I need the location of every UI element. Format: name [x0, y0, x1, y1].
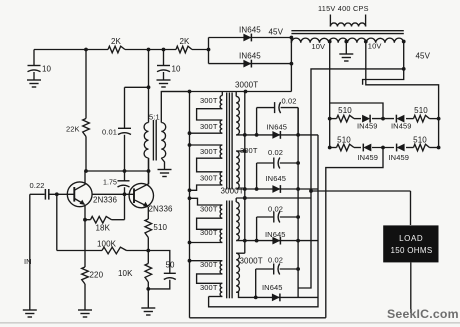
svg-text:0.22: 0.22: [30, 181, 45, 190]
wire V245 drop: [243, 92, 247, 254]
diode D9 1N645: [265, 230, 286, 245]
diode D3 1N459: [357, 115, 378, 131]
svg-text:115V 400 CPS: 115V 400 CPS: [318, 4, 369, 13]
wire S4 top hook: [236, 252, 245, 254]
svg-text:2N336: 2N336: [149, 205, 174, 214]
svg-text:18K: 18K: [96, 224, 111, 233]
wire diode row2: [236, 187, 318, 191]
diode D2 1N645 row: [209, 52, 292, 68]
resistor R12 510: [413, 135, 429, 151]
resistor R11 510: [337, 135, 355, 151]
wire base to 100K drop: [55, 192, 59, 250]
capacitor C8 0.02: [257, 148, 300, 189]
svg-text:300T: 300T: [200, 173, 218, 182]
svg-text:IN645: IN645: [265, 230, 286, 239]
wire bottom rail outer: [190, 317, 326, 319]
transistor Q1 emitter with arrow: [75, 199, 85, 205]
load resistor box: [383, 225, 438, 262]
bridge row1 dots: [328, 117, 441, 121]
svg-text:IN459: IN459: [358, 153, 379, 162]
wire W1 top tick: [221, 92, 223, 96]
scan artifact line: [0, 322, 460, 324]
bridge row2 dots: [328, 146, 441, 150]
primary winding W8 300T: [200, 283, 222, 296]
capacitor C6 50: [148, 251, 176, 289]
svg-text:IN459: IN459: [389, 153, 410, 162]
resistor R10 510: [414, 106, 430, 122]
svg-text:220: 220: [90, 271, 104, 280]
wire jumper W3-W4: [197, 158, 223, 172]
svg-text:0.02: 0.02: [268, 204, 283, 213]
wire top rail: [34, 49, 209, 51]
svg-text:IN645: IN645: [267, 123, 288, 132]
watermark: [387, 307, 459, 321]
svg-text:45V: 45V: [416, 52, 431, 61]
svg-text:3000T: 3000T: [240, 257, 263, 266]
svg-text:SeekIC.com: SeekIC.com: [387, 307, 459, 321]
svg-text:LOAD: LOAD: [399, 234, 423, 243]
wire Q2 base rail: [92, 192, 134, 196]
ground input: [23, 310, 37, 317]
svg-text:45V: 45V: [269, 28, 284, 37]
label Q1 2N336: [93, 196, 118, 205]
core upper block: [227, 93, 232, 190]
svg-text:300T: 300T: [200, 283, 218, 292]
wire right section bus V298: [297, 108, 299, 298]
resistor R3 22K: [66, 50, 89, 172]
primary winding W6 300T: [200, 228, 222, 243]
svg-text:IN645: IN645: [266, 174, 287, 183]
wire T1 primary bottom to Q2 collector: [148, 158, 150, 184]
label 115V 400 CPS: [318, 4, 369, 13]
svg-text:3000T: 3000T: [221, 187, 244, 196]
bridge row1 wire: [330, 118, 439, 120]
wire 10K to ground: [147, 289, 149, 308]
svg-text:IN645: IN645: [239, 52, 261, 61]
svg-text:10V: 10V: [368, 42, 382, 51]
svg-text:10: 10: [172, 65, 182, 74]
svg-text:10: 10: [42, 65, 52, 74]
wire W5 top to bus: [188, 196, 223, 205]
svg-text:510: 510: [338, 106, 352, 115]
label 10V right: [368, 42, 382, 51]
svg-text:22K: 22K: [66, 125, 80, 134]
svg-text:300T: 300T: [200, 122, 218, 131]
label 45V right: [416, 52, 431, 61]
diode D10 1N645: [262, 283, 283, 301]
diode D8 1N645: [266, 174, 287, 193]
transistor Q2 emitter with arrow: [134, 200, 148, 207]
secondary S1 3000T winding: [235, 81, 258, 135]
wire 10V left to bridge left: [329, 42, 331, 148]
label LOAD: [399, 234, 423, 243]
svg-text:10V: 10V: [312, 42, 326, 51]
wire input IN vertical: [24, 194, 32, 309]
core lower block: [227, 201, 232, 299]
wire 45V right end down: [402, 42, 406, 71]
wire 45V left node down: [290, 36, 294, 92]
ground below C1: [27, 80, 41, 87]
capacitor C2 10uF: [157, 50, 181, 80]
transformer T1 primary winding: [144, 123, 148, 159]
ground T2 center tap: [339, 54, 353, 61]
svg-text:50: 50: [166, 261, 176, 270]
svg-text:2K: 2K: [180, 37, 191, 46]
label 150 OHMS: [391, 246, 433, 255]
wire S3 top hook: [235, 198, 237, 202]
wire W3 top to bus: [188, 143, 223, 147]
bridge row2 wire: [330, 147, 439, 149]
svg-text:510: 510: [337, 135, 351, 144]
svg-text:2K: 2K: [111, 37, 122, 46]
svg-text:510: 510: [414, 106, 428, 115]
transistor Q2 collector: [134, 158, 148, 191]
wire load rail: [309, 189, 410, 225]
svg-text:510: 510: [153, 223, 167, 232]
ground T1 secondary: [158, 170, 172, 177]
svg-text:10K: 10K: [118, 269, 133, 278]
diode D1 1N645 row: [209, 26, 292, 42]
svg-text:IN459: IN459: [391, 122, 412, 131]
wire jumper W7-W8: [197, 274, 223, 283]
wire bridge mid drop: [326, 148, 383, 318]
svg-text:0.01: 0.01: [102, 128, 117, 137]
capacitor C4 1.75: [103, 180, 130, 220]
capacitor C9 0.02: [257, 204, 300, 240]
T2 secondary tap dots: [328, 40, 406, 44]
transformer T1 core: [153, 120, 156, 161]
transistor Q2 base bar: [133, 188, 135, 203]
wire bridge upper stub: [330, 103, 383, 119]
svg-text:3000T: 3000T: [235, 81, 258, 90]
transformer T2 core: [291, 31, 403, 34]
capacitor C5 0.22 input: [30, 181, 75, 200]
resistor R9 510: [337, 106, 355, 122]
transistor Q1 base bar: [73, 187, 75, 202]
svg-text:0.02: 0.02: [268, 148, 283, 157]
transformer T1 secondary winding: [161, 123, 165, 159]
diode D5 1N459: [358, 144, 379, 162]
wire load bottom lead: [410, 262, 412, 313]
wire gate rail: [236, 196, 311, 200]
wire S1 top hook: [235, 92, 237, 97]
primary winding W5 300T: [200, 204, 222, 218]
wire W2 bottom to bus: [188, 131, 223, 135]
diode D4 1N459: [391, 115, 412, 131]
T2 center tap ground wire: [345, 42, 347, 54]
capacitor C10 0.02: [256, 256, 300, 298]
diode D6 1N459: [389, 144, 410, 162]
svg-text:300T: 300T: [200, 96, 218, 105]
secondary S3 3000T winding: [221, 187, 244, 241]
svg-text:150 OHMS: 150 OHMS: [391, 246, 433, 255]
wire jumper W5-W6: [197, 218, 223, 229]
wire W7 top to bus: [188, 259, 223, 263]
wire T1 secondary top to bus: [161, 92, 189, 123]
svg-text:300T: 300T: [200, 147, 218, 156]
wire Q1 emitter down: [83, 205, 87, 267]
svg-text:IN645: IN645: [262, 283, 283, 292]
resistor R2 2K: [176, 37, 192, 53]
ground below C2: [157, 80, 171, 87]
wire diode row1: [236, 133, 318, 137]
label 10V left: [312, 42, 326, 51]
svg-text:IN: IN: [24, 257, 32, 266]
wire bus left vertical: [189, 92, 191, 318]
svg-text:2N336: 2N336: [93, 196, 118, 205]
transistor Q1 2N336 circle: [67, 182, 92, 207]
wire W4 bottom to bus: [188, 185, 223, 192]
svg-text:0.02: 0.02: [282, 97, 297, 106]
wire 10V right to bridge right: [366, 42, 439, 148]
ground below R5: [78, 310, 92, 317]
wire top rail y91.5: [161, 90, 291, 94]
resistor R5 220: [82, 267, 104, 310]
ground below 10K: [141, 308, 155, 315]
label 45V left: [269, 28, 284, 37]
capacitor C1 10uF: [28, 50, 52, 80]
transformer T1 5:1 label: [149, 113, 160, 122]
wire right return bus V318: [209, 135, 318, 307]
wire 45V lower jog: [363, 69, 404, 85]
wire node to T1 primary: [148, 50, 150, 123]
primary winding W2 300T: [200, 120, 222, 133]
transformer T2 primary: [330, 15, 365, 27]
wire T1 secondary bottom: [161, 158, 164, 169]
label Q2 2N336: [149, 205, 174, 214]
primary winding W3 300T: [200, 145, 222, 158]
capacitor C3 0.01: [102, 128, 131, 181]
wire left leg of diode loop: [208, 38, 210, 64]
transistor Q2 2N336 circle: [129, 183, 153, 207]
primary winding W4 300T: [200, 172, 222, 185]
secondary S4 3000T winding: [236, 253, 262, 292]
wire diode row4: [236, 292, 318, 299]
wire diode row3: [236, 239, 318, 243]
svg-text:100K: 100K: [97, 240, 117, 249]
capacitor C7 0.02: [257, 97, 299, 135]
resistor R4 18K: [85, 216, 125, 232]
wire W6 bottom to bus: [188, 241, 223, 245]
diode D7 1N645: [267, 123, 288, 139]
primary winding W1 300T: [200, 96, 222, 109]
node A junction dots on top rail: [84, 48, 210, 52]
wire S2 top hook: [236, 150, 245, 152]
svg-text:IN645: IN645: [239, 26, 261, 35]
primary winding W7 300T: [200, 260, 222, 274]
transformer T2 secondary: [291, 38, 403, 43]
svg-text:1.75: 1.75: [103, 180, 117, 187]
resistor R7 100K: [57, 240, 150, 254]
resistor R6 510: [145, 207, 167, 251]
svg-text:510: 510: [413, 135, 427, 144]
svg-text:0.02: 0.02: [268, 256, 283, 265]
svg-text:IN459: IN459: [357, 122, 378, 131]
wire collector rail y171: [84, 169, 150, 173]
secondary S2 300T winding: [236, 146, 258, 189]
wire jumper W1-W2: [197, 109, 223, 120]
wire W8 bottom lead: [209, 296, 223, 298]
wire 45V to mid bus: [298, 69, 404, 288]
svg-text:5:1: 5:1: [149, 113, 160, 122]
resistor R8 10K: [118, 251, 152, 291]
resistor R1 2K: [108, 37, 125, 53]
wire 0.01 branch top: [125, 85, 151, 128]
transistor Q1 collector: [75, 171, 86, 190]
